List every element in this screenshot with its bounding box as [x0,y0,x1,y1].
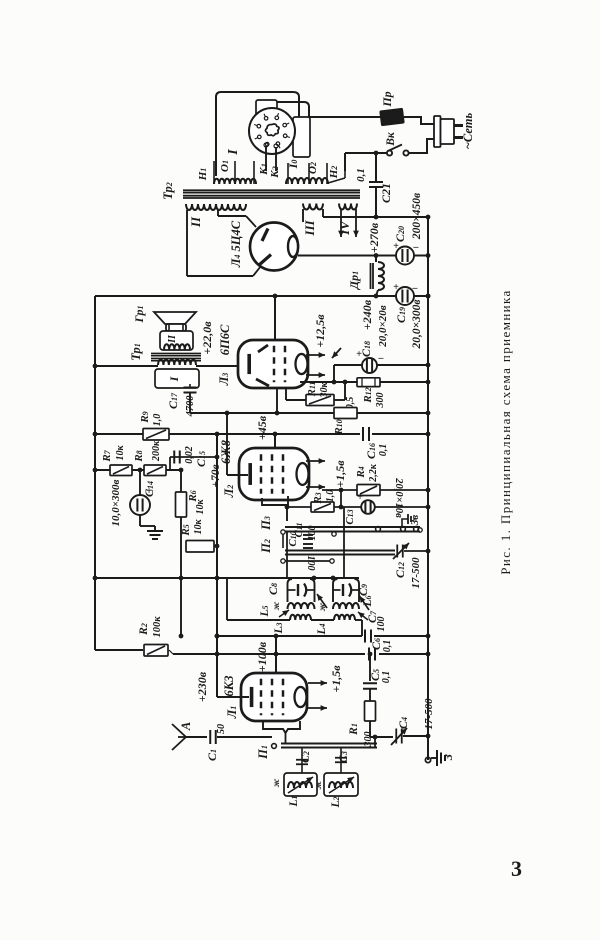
svg-text:ж: ж [271,601,281,610]
svg-text:С3: С3 [338,751,350,763]
svg-text:10,0×300в: 10,0×300в [110,479,122,526]
svg-text:R10: R10 [333,419,345,435]
svg-text:L6: L6 [362,595,374,607]
svg-text:Н1: Н1 [197,168,209,182]
svg-text:R1: R1 [348,723,360,736]
svg-text:R4: R4 [355,466,367,478]
svg-text:С13: С13 [344,509,356,524]
svg-text:С11: С11 [293,523,305,538]
svg-text:L5: L5 [259,605,271,617]
svg-text:30к: 30к [319,382,330,399]
svg-text:ж: ж [313,780,323,789]
svg-text:ж: ж [271,778,281,787]
svg-text:100: 100 [376,617,387,632]
svg-text:+22,0в: +22,0в [200,321,214,355]
svg-text:3: 3 [511,856,522,881]
svg-text:10к: 10к [193,519,204,535]
svg-text:+45в: +45в [255,415,269,440]
svg-text:50: 50 [216,724,227,734]
svg-text:17-500: 17-500 [423,698,435,730]
svg-text:0,1: 0,1 [382,640,393,653]
svg-text:Рис. 1. Принципиальная схема п: Рис. 1. Принципиальная схема приемника [498,289,513,574]
svg-text:Пр: Пр [380,91,394,107]
svg-text:ІІ: ІІ [188,216,203,228]
svg-text:6Ж8: 6Ж8 [219,439,233,464]
svg-text:–: – [412,283,418,294]
svg-text:ІІІ: ІІІ [302,219,317,236]
svg-text:І: І [226,149,241,156]
svg-text:Л4 5Ц4С: Л4 5Ц4С [229,220,243,268]
svg-text:~Сеть: ~Сеть [461,113,475,150]
svg-text:О2: О2 [307,162,319,174]
svg-text:L3: L3 [273,622,285,634]
svg-text:300: 300 [363,732,374,748]
svg-text:L4: L4 [316,623,328,635]
svg-text:20,0×300в: 20,0×300в [411,299,423,349]
svg-text:А: А [179,722,193,731]
svg-text:+240в: +240в [360,299,374,330]
svg-text:2,2к: 2,2к [368,463,379,483]
svg-text:3в: 3в [409,515,421,527]
svg-text:200×450в: 200×450в [411,193,423,240]
svg-text:20,0×20в: 20,0×20в [377,305,389,348]
svg-text:+270в: +270в [367,222,381,253]
svg-text:С2: С2 [300,751,312,763]
svg-text:4700: 4700 [185,395,196,418]
svg-text:R12: R12 [362,387,374,403]
svg-text:О1: О1 [219,160,231,172]
svg-text:0,1: 0,1 [381,671,392,684]
svg-text:–: – [413,242,419,253]
svg-text:+100в: +100в [255,641,269,672]
svg-text:17-500: 17-500 [410,557,422,589]
svg-text:ж: ж [317,602,327,611]
svg-text:100к: 100к [152,616,163,638]
svg-text:С21: С21 [379,183,393,203]
svg-text:100: 100 [305,556,316,571]
svg-text:R9: R9 [139,411,151,423]
svg-text:К2: К2 [269,166,281,178]
svg-text:L2: L2 [330,796,342,808]
svg-text:+12,5в: +12,5в [313,314,327,348]
svg-text:ІV: ІV [337,220,352,236]
svg-text:+: + [393,282,399,293]
svg-text:6К3: 6К3 [222,676,236,697]
svg-text:6П6С: 6П6С [218,324,232,355]
svg-text:300: 300 [375,393,386,409]
svg-text:+: + [357,492,363,503]
svg-text:R3: R3 [312,492,324,504]
svg-text:0,1: 0,1 [355,168,367,182]
svg-text:R7: R7 [101,449,113,462]
svg-text:0,1: 0,1 [378,444,389,457]
svg-text:R11: R11 [306,382,318,398]
svg-text:200к: 200к [151,440,162,462]
svg-text:R2: R2 [138,623,150,636]
svg-text:З: З [441,754,455,761]
svg-text:L1: L1 [288,795,300,807]
svg-text:R5: R5 [180,524,192,536]
svg-text:–: – [378,353,384,364]
svg-text:ІІ: ІІ [167,334,178,344]
svg-text:+230в: +230в [195,671,209,702]
svg-text:+70в: +70в [210,464,222,487]
svg-text:Вк: Вк [385,131,397,147]
svg-text:10к: 10к [115,445,126,461]
svg-text:20,0×10в: 20,0×10в [393,477,404,518]
svg-text:10к: 10к [195,499,206,515]
svg-text:100: 100 [307,526,318,541]
svg-text:1,0: 1,0 [152,414,163,427]
svg-text:+1,5в: +1,5в [329,665,343,693]
svg-text:+1,5в: +1,5в [333,460,347,488]
svg-text:Н2: Н2 [328,166,340,180]
svg-text:1,0: 1,0 [325,490,336,503]
svg-text:R8: R8 [133,450,145,462]
